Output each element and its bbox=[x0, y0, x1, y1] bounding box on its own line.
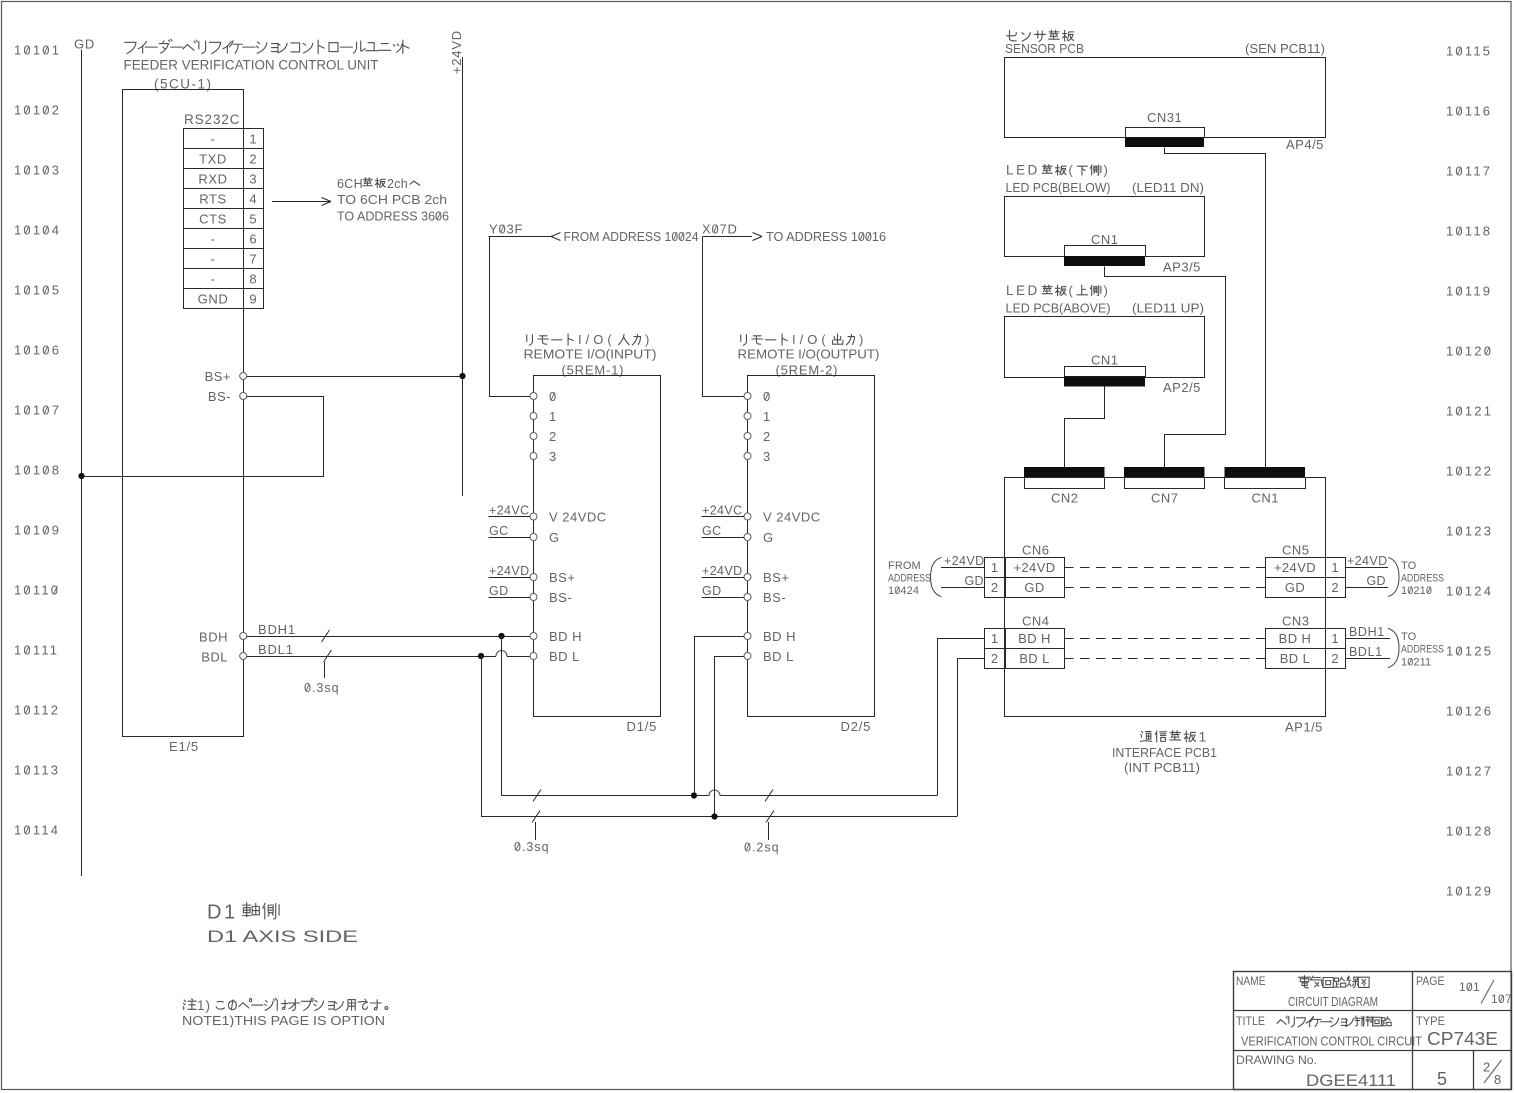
svg-text:GND: GND bbox=[198, 292, 229, 307]
connector RS232C pin table bbox=[184, 129, 264, 309]
pin 0 of (5REM-2) bbox=[744, 393, 751, 400]
stub GD right of CN5 bbox=[1345, 587, 1388, 589]
svg-text:BDH1: BDH1 bbox=[1349, 625, 1385, 639]
control unit 5CU-1 box bbox=[123, 90, 244, 737]
wire trunk up to CN4 pin2 bbox=[958, 659, 985, 817]
svg-text:+24VC: +24VC bbox=[702, 504, 743, 518]
svg-text:BDL1: BDL1 bbox=[258, 642, 294, 657]
wire BDH drop from junction to trunk bbox=[501, 636, 503, 796]
svg-text:10120: 10120 bbox=[1446, 344, 1493, 359]
svg-text:+24VD: +24VD bbox=[1274, 560, 1316, 575]
svg-text:10122: 10122 bbox=[1446, 464, 1493, 479]
svg-text:6: 6 bbox=[249, 232, 256, 247]
wire output BD L drop bbox=[715, 657, 745, 817]
pin 1 of (5REM-1) bbox=[530, 413, 537, 420]
stub GD left of CN6 bbox=[941, 587, 984, 589]
svg-text:LED: LED bbox=[1006, 163, 1040, 178]
svg-text:CN1: CN1 bbox=[1252, 491, 1280, 506]
svg-text:10128: 10128 bbox=[1446, 824, 1493, 839]
svg-text:1: 1 bbox=[549, 409, 557, 424]
svg-text:10123: 10123 bbox=[1446, 524, 1493, 539]
sensor PCB title (japanese) bbox=[1007, 30, 1017, 40]
svg-text:BD L: BD L bbox=[1019, 651, 1050, 666]
svg-text:0.3sq: 0.3sq bbox=[514, 840, 550, 854]
svg-text:ADDRESS: ADDRESS bbox=[1401, 573, 1444, 585]
svg-text:2: 2 bbox=[1331, 651, 1338, 666]
svg-text:10118: 10118 bbox=[1446, 224, 1492, 239]
svg-text:10109: 10109 bbox=[14, 523, 61, 538]
wire Y03F vertical to input pin 0 bbox=[490, 237, 531, 397]
dashed wire CN6-CN5 GD bbox=[1064, 587, 1265, 589]
junction output BD H / trunk bbox=[691, 792, 697, 798]
interface PCB name (japanese) 通信基板1 bbox=[1140, 731, 1151, 741]
svg-text:BD L: BD L bbox=[1280, 651, 1311, 666]
pin BD L of (5REM-1) bbox=[530, 653, 537, 660]
svg-text:5: 5 bbox=[249, 212, 256, 227]
svg-text:TO ADDRESS 3606: TO ADDRESS 3606 bbox=[337, 209, 449, 224]
svg-text:10121: 10121 bbox=[1446, 404, 1493, 419]
svg-text:3: 3 bbox=[763, 449, 771, 464]
svg-text:CN6: CN6 bbox=[1022, 543, 1050, 558]
svg-text:LED PCB(BELOW): LED PCB(BELOW) bbox=[1006, 180, 1111, 195]
svg-text:LED: LED bbox=[1006, 283, 1040, 298]
svg-text:2ch: 2ch bbox=[387, 177, 408, 191]
pin G of (5REM-2) bbox=[744, 534, 751, 541]
stub wire +24VC of (5REM-1) bbox=[489, 516, 531, 518]
svg-text:-: - bbox=[211, 232, 216, 247]
connector CN3 body bbox=[1266, 629, 1346, 669]
svg-text:10102: 10102 bbox=[14, 103, 61, 118]
svg-text:5: 5 bbox=[1437, 1069, 1447, 1089]
pin BD L of (5REM-2) bbox=[744, 653, 751, 660]
svg-text:10107: 10107 bbox=[14, 403, 61, 418]
svg-text:(: ( bbox=[1069, 283, 1074, 298]
svg-text:BDH1: BDH1 bbox=[258, 622, 296, 637]
stub wire GD of (5REM-1) bbox=[489, 597, 531, 599]
svg-text:GC: GC bbox=[489, 524, 509, 538]
wire +24VD vertical bbox=[462, 57, 464, 496]
svg-text:TITLE: TITLE bbox=[1236, 1014, 1265, 1028]
svg-text:10105: 10105 bbox=[14, 283, 61, 298]
wire LED below CN1 to interface CN7 bbox=[1105, 267, 1226, 468]
svg-text:DGEE4111: DGEE4111 bbox=[1306, 1071, 1396, 1090]
pin 0 of (5REM-1) bbox=[530, 393, 537, 400]
brace from-address 10424 bbox=[931, 558, 942, 597]
connector CN4 body bbox=[985, 629, 1065, 669]
svg-text:D1/5: D1/5 bbox=[627, 719, 658, 734]
svg-text:8: 8 bbox=[1494, 1072, 1501, 1087]
svg-text:): ) bbox=[859, 332, 863, 347]
svg-text:10113: 10113 bbox=[14, 763, 60, 778]
svg-text:(INT PCB11): (INT PCB11) bbox=[1124, 760, 1200, 775]
svg-text:-: - bbox=[211, 132, 216, 147]
wire trunk up to CN4 pin1 bbox=[938, 639, 985, 796]
svg-text:10111: 10111 bbox=[14, 643, 59, 658]
svg-text:1: 1 bbox=[763, 409, 771, 424]
svg-text:10211: 10211 bbox=[1401, 657, 1431, 669]
stub +24VD left of CN6 bbox=[941, 567, 984, 569]
svg-text:BD H: BD H bbox=[1279, 631, 1312, 646]
LED PCB box bbox=[1005, 197, 1205, 257]
pin BS+ of (5REM-1) bbox=[530, 574, 537, 581]
stub wire GC of (5REM-2) bbox=[702, 537, 745, 539]
remote I/O box (5REM-2) bbox=[748, 376, 875, 717]
svg-text:2: 2 bbox=[549, 429, 557, 444]
svg-text:10124: 10124 bbox=[1446, 584, 1493, 599]
remote I/O box (5REM-1) bbox=[534, 376, 661, 717]
svg-text:2: 2 bbox=[1331, 580, 1338, 595]
drawing name japanese bbox=[1299, 976, 1311, 988]
stub wire +24VD of (5REM-2) bbox=[702, 577, 745, 579]
svg-text:REMOTE I/O(INPUT): REMOTE I/O(INPUT) bbox=[524, 347, 657, 362]
title japanese bbox=[1277, 1016, 1289, 1024]
svg-text:V 24VDC: V 24VDC bbox=[763, 510, 821, 525]
svg-text:CN31: CN31 bbox=[1147, 110, 1182, 125]
svg-text:1: 1 bbox=[991, 560, 998, 575]
svg-text:6CH: 6CH bbox=[337, 177, 363, 191]
pin 2 of (5REM-2) bbox=[744, 433, 751, 440]
svg-text:+24VD: +24VD bbox=[489, 564, 530, 578]
svg-text:ADDRESS: ADDRESS bbox=[888, 573, 931, 585]
svg-text:D1: D1 bbox=[207, 902, 238, 924]
svg-text:INTERFACE PCB1: INTERFACE PCB1 bbox=[1112, 745, 1217, 760]
svg-text:CN4: CN4 bbox=[1022, 614, 1050, 629]
stub +24VD right of CN5 bbox=[1345, 567, 1388, 569]
svg-text:AP2/5: AP2/5 bbox=[1163, 380, 1201, 395]
svg-text:(SEN PCB11): (SEN PCB11) bbox=[1245, 41, 1325, 56]
junction output BD L / trunk bbox=[711, 813, 717, 819]
svg-text:1: 1 bbox=[991, 631, 998, 646]
wire BDL drop from junction to trunk bbox=[481, 656, 483, 817]
svg-text:FROM: FROM bbox=[888, 560, 921, 572]
arrow RS232C to 6CH PCB bbox=[272, 201, 331, 203]
pin 2 of (5REM-1) bbox=[530, 433, 537, 440]
svg-text:GD: GD bbox=[1366, 574, 1386, 588]
junction +24VD / BS+ bbox=[459, 373, 465, 379]
feeder verification control unit title (japanese) bbox=[125, 42, 136, 53]
svg-text:FEEDER VERIFICATION CONTROL UN: FEEDER VERIFICATION CONTROL UNIT bbox=[124, 58, 379, 73]
svg-text:-: - bbox=[211, 252, 216, 267]
svg-text:GC: GC bbox=[702, 524, 722, 538]
wire BS- to GD bus bbox=[82, 397, 324, 477]
pin 1 of (5REM-2) bbox=[744, 413, 751, 420]
wire X07D bbox=[703, 236, 753, 238]
stub wire GD of (5REM-2) bbox=[702, 597, 745, 599]
svg-text:1): 1) bbox=[197, 998, 211, 1013]
svg-text:10126: 10126 bbox=[1446, 704, 1493, 719]
remote I/O header (japanese) (5REM-2) bbox=[741, 335, 747, 346]
svg-text:3: 3 bbox=[549, 449, 557, 464]
svg-text:BS-: BS- bbox=[549, 590, 572, 605]
svg-text:SENSOR PCB: SENSOR PCB bbox=[1005, 41, 1084, 56]
connector CN7 (top of interface PCB) bbox=[1124, 467, 1205, 478]
svg-text:RTS: RTS bbox=[199, 192, 227, 207]
svg-text:CN3: CN3 bbox=[1282, 614, 1310, 629]
connector CN1 bbox=[1065, 246, 1146, 257]
svg-text:RXD: RXD bbox=[198, 172, 227, 187]
pin 3 of (5REM-1) bbox=[530, 453, 537, 460]
svg-text:10117: 10117 bbox=[1446, 164, 1492, 179]
svg-text:BS-: BS- bbox=[208, 389, 231, 404]
svg-text:AP4/5: AP4/5 bbox=[1286, 137, 1324, 152]
wire X07D vertical to output pin 0 bbox=[703, 237, 745, 397]
svg-text:10110: 10110 bbox=[14, 583, 60, 598]
title block frame bbox=[1234, 972, 1512, 1090]
svg-text:10108: 10108 bbox=[14, 463, 61, 478]
svg-text:2: 2 bbox=[991, 651, 998, 666]
pin BD H of (5REM-2) bbox=[744, 633, 751, 640]
svg-text:10112: 10112 bbox=[14, 703, 60, 718]
svg-text:10103: 10103 bbox=[14, 163, 61, 178]
dashed wire CN4-CN3 BD H bbox=[1064, 638, 1265, 640]
wire BD H trunk (upper) with hop bbox=[502, 795, 709, 797]
svg-text:DRAWING No.: DRAWING No. bbox=[1236, 1053, 1317, 1067]
svg-text:3: 3 bbox=[249, 172, 256, 187]
svg-text:BDL: BDL bbox=[201, 650, 228, 665]
svg-text:CN1: CN1 bbox=[1091, 353, 1119, 368]
svg-text:CN2: CN2 bbox=[1051, 491, 1079, 506]
svg-text:REMOTE I/O(OUTPUT): REMOTE I/O(OUTPUT) bbox=[738, 347, 880, 362]
svg-text:D1 AXIS SIDE: D1 AXIS SIDE bbox=[207, 927, 358, 946]
svg-text:NAME: NAME bbox=[1236, 974, 1266, 988]
wire-gauge slashes 0.3sq trunk bbox=[533, 790, 541, 802]
svg-text:GD: GD bbox=[1285, 580, 1305, 595]
pin BS+ of (5REM-2) bbox=[744, 574, 751, 581]
svg-text:BS+: BS+ bbox=[763, 570, 789, 585]
svg-text:CTS: CTS bbox=[199, 212, 227, 227]
svg-text:PAGE: PAGE bbox=[1416, 974, 1445, 988]
svg-text:(LED11 UP): (LED11 UP) bbox=[1132, 301, 1204, 316]
junction BDL1 drop bbox=[478, 653, 484, 659]
svg-text:1: 1 bbox=[1199, 729, 1207, 745]
stub wire GC of (5REM-1) bbox=[489, 537, 531, 539]
interface PCB box bbox=[1005, 478, 1326, 717]
svg-text:G: G bbox=[763, 530, 774, 545]
arrowhead to-address bbox=[753, 233, 763, 237]
sensor PCB box bbox=[1005, 58, 1326, 138]
svg-text:AP1/5: AP1/5 bbox=[1285, 720, 1323, 735]
svg-text:10116: 10116 bbox=[1446, 104, 1492, 119]
svg-text:1: 1 bbox=[1331, 631, 1338, 646]
svg-text:VERIFICATION CONTROL CIRCUIT: VERIFICATION CONTROL CIRCUIT bbox=[1241, 1034, 1422, 1049]
wire LED above CN1 to interface CN2 bbox=[1065, 387, 1105, 468]
pin BDL of control unit bbox=[240, 653, 247, 660]
note 1 japanese: this page is option bbox=[183, 999, 196, 1010]
wire BDH1 bbox=[247, 636, 534, 638]
svg-text:4: 4 bbox=[249, 192, 256, 207]
svg-text:AP3/5: AP3/5 bbox=[1163, 260, 1201, 275]
svg-text:TYPE: TYPE bbox=[1416, 1014, 1445, 1028]
svg-text:BD L: BD L bbox=[763, 649, 794, 664]
svg-text:10424: 10424 bbox=[888, 585, 919, 597]
svg-text:1: 1 bbox=[249, 132, 256, 147]
svg-text:D2/5: D2/5 bbox=[841, 719, 872, 734]
svg-text:8: 8 bbox=[249, 272, 256, 287]
svg-text:7: 7 bbox=[249, 252, 256, 267]
pin BDH of control unit bbox=[240, 633, 247, 640]
svg-text:TO: TO bbox=[1401, 631, 1417, 643]
svg-text:10106: 10106 bbox=[14, 343, 61, 358]
svg-text:BD H: BD H bbox=[763, 629, 796, 644]
svg-text:+24VD: +24VD bbox=[1013, 560, 1055, 575]
svg-text:(LED11 DN): (LED11 DN) bbox=[1132, 180, 1204, 195]
svg-text:GD: GD bbox=[489, 584, 509, 598]
svg-text:BD L: BD L bbox=[549, 649, 580, 664]
svg-text:TO ADDRESS 10016: TO ADDRESS 10016 bbox=[766, 229, 886, 244]
svg-text:CN5: CN5 bbox=[1282, 543, 1310, 558]
pin G of (5REM-1) bbox=[530, 534, 537, 541]
svg-text:Y03F: Y03F bbox=[489, 222, 523, 237]
pin BS- of (5REM-1) bbox=[530, 594, 537, 601]
svg-text:BDH: BDH bbox=[199, 630, 228, 645]
svg-text:RS232C: RS232C bbox=[184, 112, 240, 127]
svg-text:BDL1: BDL1 bbox=[1349, 645, 1383, 659]
svg-text:FROM ADDRESS 10024: FROM ADDRESS 10024 bbox=[564, 229, 699, 244]
svg-text:E1/5: E1/5 bbox=[169, 739, 199, 754]
svg-text:1: 1 bbox=[1331, 560, 1338, 575]
svg-text:10114: 10114 bbox=[14, 823, 60, 838]
remote I/O header (japanese) (5REM-1) bbox=[527, 335, 533, 346]
svg-text:GD: GD bbox=[74, 37, 95, 52]
pin BD H of (5REM-1) bbox=[530, 633, 537, 640]
svg-text:0.2sq: 0.2sq bbox=[744, 841, 780, 855]
stub wire +24VD of (5REM-1) bbox=[489, 577, 531, 579]
svg-text:BS+: BS+ bbox=[549, 570, 575, 585]
LED PCB box bbox=[1005, 317, 1205, 378]
svg-text:ADDRESS: ADDRESS bbox=[1401, 644, 1444, 656]
pin BS- of control unit bbox=[240, 393, 247, 400]
brace to-address 10211 bbox=[1389, 629, 1400, 668]
wire BDL1 (with hop over BDH drop) bbox=[247, 656, 497, 658]
svg-text:CN7: CN7 bbox=[1151, 491, 1179, 506]
svg-text:10115: 10115 bbox=[1446, 44, 1492, 59]
connector CN5 body bbox=[1266, 558, 1346, 598]
svg-text:G: G bbox=[549, 530, 560, 545]
connector CN2 (top of interface PCB) bbox=[1024, 467, 1105, 478]
connector CN1 (top of interface PCB) bbox=[1225, 467, 1306, 478]
svg-text:+24VD: +24VD bbox=[702, 564, 743, 578]
svg-text:+24VD: +24VD bbox=[944, 554, 985, 568]
svg-text:0.3sq: 0.3sq bbox=[304, 681, 340, 695]
svg-text:10119: 10119 bbox=[1446, 284, 1492, 299]
svg-text:2: 2 bbox=[1483, 1060, 1490, 1075]
pin V 24VDC of (5REM-2) bbox=[744, 513, 751, 520]
arrowhead from-address bbox=[551, 233, 561, 237]
connector CN31 bbox=[1126, 128, 1205, 138]
svg-text:GD: GD bbox=[1024, 580, 1044, 595]
wire BD L trunk (lower) bbox=[481, 816, 957, 818]
stub BDH1 right of CN3 bbox=[1345, 638, 1390, 640]
svg-text:): ) bbox=[1104, 283, 1108, 298]
pin V 24VDC of (5REM-1) bbox=[530, 513, 537, 520]
svg-text:10210: 10210 bbox=[1401, 585, 1432, 597]
svg-text:2: 2 bbox=[991, 580, 998, 595]
svg-text:NOTE1)THIS PAGE IS OPTION: NOTE1)THIS PAGE IS OPTION bbox=[182, 1013, 385, 1028]
svg-text:2: 2 bbox=[249, 152, 256, 167]
svg-text:-: - bbox=[211, 272, 216, 287]
svg-text:LED PCB(ABOVE): LED PCB(ABOVE) bbox=[1006, 301, 1111, 316]
pin 3 of (5REM-2) bbox=[744, 453, 751, 460]
svg-text:BS+: BS+ bbox=[205, 369, 231, 384]
svg-text:TXD: TXD bbox=[199, 152, 227, 167]
svg-text:10104: 10104 bbox=[14, 223, 61, 238]
wire CN31 to interface CN1 bbox=[1165, 148, 1266, 468]
svg-text:10125: 10125 bbox=[1446, 644, 1493, 659]
svg-text:+24VC: +24VC bbox=[489, 504, 530, 518]
wire-gauge slashes 0.2sq trunk bbox=[765, 790, 773, 802]
svg-text:9: 9 bbox=[249, 292, 256, 307]
svg-text:): ) bbox=[1104, 163, 1108, 178]
svg-text:CIRCUIT DIAGRAM: CIRCUIT DIAGRAM bbox=[1288, 995, 1378, 1009]
svg-text:X07D: X07D bbox=[702, 222, 738, 237]
pin BS+ of control unit bbox=[240, 373, 247, 380]
junction GD / BS- bbox=[78, 473, 84, 479]
svg-text:TO 6CH PCB 2ch: TO 6CH PCB 2ch bbox=[337, 192, 447, 207]
svg-text:10127: 10127 bbox=[1446, 764, 1493, 779]
svg-text:CP743E: CP743E bbox=[1427, 1029, 1498, 1049]
svg-text:+24VD: +24VD bbox=[449, 30, 464, 74]
dashed wire CN4-CN3 BD L bbox=[1064, 658, 1265, 660]
wire-gauge slashes 0.3sq near control unit bbox=[322, 630, 330, 642]
svg-text:V 24VDC: V 24VDC bbox=[549, 510, 607, 525]
svg-text:BD H: BD H bbox=[549, 629, 582, 644]
stub wire +24VC of (5REM-2) bbox=[702, 516, 745, 518]
wire Y03F bbox=[489, 236, 552, 238]
svg-text:10129: 10129 bbox=[1446, 884, 1493, 899]
connector CN1 bbox=[1065, 367, 1146, 377]
svg-text:BS-: BS- bbox=[763, 590, 786, 605]
dashed wire CN6-CN5 +24VD bbox=[1064, 567, 1265, 569]
svg-text:CN1: CN1 bbox=[1091, 232, 1119, 247]
wire GD vertical bus bbox=[81, 50, 83, 877]
svg-text:(: ( bbox=[1069, 163, 1074, 178]
svg-text:2: 2 bbox=[763, 429, 771, 444]
svg-text:10101: 10101 bbox=[14, 43, 61, 58]
svg-text:I/O(: I/O( bbox=[792, 332, 830, 347]
stub BDL1 right of CN3 bbox=[1345, 658, 1390, 660]
wire BS+ to +24VD bus bbox=[247, 376, 463, 378]
svg-text:): ) bbox=[645, 332, 649, 347]
svg-text:+24VD: +24VD bbox=[1347, 554, 1388, 568]
svg-text:BD H: BD H bbox=[1018, 631, 1051, 646]
pin BS- of (5REM-2) bbox=[744, 594, 751, 601]
svg-text:GD: GD bbox=[702, 584, 722, 598]
svg-text:I/O(: I/O( bbox=[578, 332, 616, 347]
svg-text:TO: TO bbox=[1401, 560, 1417, 572]
connector CN6 body bbox=[985, 558, 1065, 598]
junction BDH1 drop bbox=[498, 633, 504, 639]
brace to-address 10210 bbox=[1389, 558, 1400, 597]
svg-text:GD: GD bbox=[964, 574, 984, 588]
wire output BD H drop bbox=[695, 637, 745, 796]
